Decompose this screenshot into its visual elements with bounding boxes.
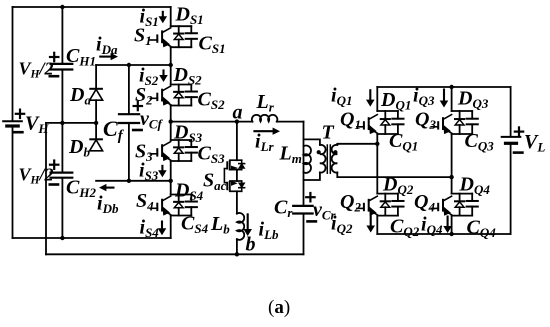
wire: leg1 mid (Q1 to Q2) (376, 134, 378, 194)
wire: leg1 top (rail to Q1) (376, 87, 378, 111)
arrow i_Q4 (443, 216, 452, 234)
wire: output bottom rail (377, 233, 510, 235)
junction: top rail at leg2 (449, 85, 453, 89)
junction: secondary bottom at leg2 midpoint (449, 175, 453, 179)
wire: top rail from left corner to S1 drain (13, 6, 171, 8)
wire: C_f bottom lead (128, 124, 130, 181)
junction: C_f bottom at S3-S4 wire (127, 179, 131, 183)
svg-text:T: T (322, 122, 335, 144)
label - of V_H (14, 131, 22, 134)
inductor L_r (252, 115, 277, 122)
wire: node a line from S leg to L_r (171, 121, 253, 123)
transformer secondary polarity dot (333, 150, 337, 154)
battery V_L (output source) (502, 136, 521, 138)
arrow i_Q1 (366, 89, 375, 106)
label + of C_H1 (50, 56, 58, 58)
wire: primary column vertical (to C_r top) (303, 122, 305, 206)
transistor Q2 (MOSFET) (357, 207, 364, 209)
transistor S3 (MOSFET) (150, 153, 157, 155)
snubber capacitor C_Q2 (397, 194, 399, 201)
wire: bottom return rail V_H- to S4 source (13, 237, 171, 239)
wire: leg2 bottom (Q4 to rail) (451, 216, 453, 234)
wire: V_L branch lower (510, 144, 512, 234)
junction: midpoint M at capacitor column (60, 121, 64, 125)
wire: S_ac to L_b lead (236, 191, 238, 213)
battery V_H (input source) (3, 120, 22, 122)
transistor S2 (MOSFET) (150, 97, 157, 99)
junction: secondary top at leg1 midpoint (375, 142, 379, 146)
junction: C_H2 bottom at return rail (60, 236, 64, 240)
arrow i_Lb (243, 213, 252, 236)
junction: top rail / C_H1 column (60, 5, 64, 9)
wire: S_ac branch upper lead (node a down) (236, 122, 238, 161)
node a junction (235, 119, 239, 123)
switch cell Q4 loop wires (452, 193, 473, 195)
transformer primary polarity dot (317, 150, 321, 154)
snubber capacitor C_Q1 (397, 111, 399, 119)
label + of V_H (16, 113, 24, 115)
junction: bottom rail at leg2 (449, 232, 453, 236)
junction: node a tap at switch string (169, 119, 173, 123)
label + of V_L (515, 131, 523, 133)
transistor S1 (MOSFET) (150, 39, 157, 41)
transformer T secondary winding (332, 145, 338, 173)
wire: leg2 mid (Q3 to Q4) (451, 134, 453, 194)
snubber capacitor C_Q4 (471, 194, 473, 201)
wire: left rail upper segment (top-left corner down to V_H battery) (12, 7, 14, 120)
wire: bottom rail from M to C_r (node b rail) (46, 253, 304, 255)
wire: capacitor column C_H1 top lead (61, 7, 63, 63)
wire: midpoint node M drop to rail b (45, 123, 47, 254)
wire: C_f top lead (128, 65, 130, 114)
label + of v_Cr (306, 196, 314, 198)
switch cell Q3 loop wires (452, 110, 473, 112)
capacitor C_f (flying) (119, 113, 139, 115)
arrow i_Db (99, 184, 115, 191)
snubber capacitor C_S3 (190, 140, 192, 147)
body diode D_Q1 (384, 111, 386, 119)
svg-text:(a): (a) (268, 297, 290, 318)
label - of C_H2 (50, 183, 58, 186)
wire: transformer secondary bottom stub to Q3-Q4 midpoint (337, 173, 451, 178)
arrow i_S1 (159, 11, 168, 23)
wire: output top rail (377, 86, 510, 88)
arrow i_Lr (253, 128, 280, 135)
inductor L_b (237, 213, 244, 240)
body diode D_S2 (178, 85, 180, 92)
body diode D_Q4 (459, 194, 461, 202)
transistor Q1 (MOSFET) (357, 126, 364, 128)
switch cell S1 loop wires (171, 25, 192, 27)
switch cell Q1 loop wires (377, 110, 398, 112)
diode D_a (95, 88, 97, 90)
wire: capacitor column between C_H1 and C_H2 (61, 71, 63, 172)
capacitor C_r (resonant) (293, 205, 312, 207)
wire: left rail lower segment (V_H battery down to bottom corner) (12, 127, 14, 238)
body diode D_S3 (178, 140, 180, 147)
label + of C_H2 (50, 164, 58, 166)
wire: C_r bottom lead (303, 214, 305, 255)
body diode D_Q2 (384, 194, 386, 202)
snubber capacitor C_S4 (190, 195, 192, 202)
wire: S string segment S1 top (170, 7, 172, 26)
junction: C_f top at S1-S2 wire (127, 63, 131, 67)
label - of C_H1 (50, 75, 58, 78)
wire: S1-S2 junction to D_a cathode (96, 64, 171, 66)
junction: S1-S2 at switch string (169, 63, 173, 67)
node b junction (235, 252, 239, 256)
wire: S string segment S2-S3 (node a tap) (170, 106, 172, 141)
wire: capacitor column C_H2 bottom lead (61, 179, 63, 238)
capacitor C_H2 (51, 172, 73, 174)
arrow i_Q3 (440, 89, 449, 108)
arrow i_Da (99, 53, 118, 60)
switch cell Q2 loop wires (377, 193, 398, 195)
junction: node between D_a and D_b (94, 121, 98, 125)
transformer T core (326, 145, 328, 173)
body diode D_S1 (178, 26, 180, 33)
diode D_b (90, 138, 102, 140)
transistor Q4 (MOSFET) (431, 207, 438, 209)
wire: node a line from L_r to primary column (277, 121, 304, 123)
junction: S3-S4 at switch string (169, 179, 173, 183)
body diode D_Q3 (459, 111, 461, 119)
switch cell S4 loop wires (171, 194, 192, 196)
wire: L_b to node b lead (236, 239, 238, 254)
wire: S string segment S1-S2 (170, 47, 172, 84)
wire: S_ac interconnect (236, 170, 238, 181)
snubber capacitor C_S1 (190, 26, 192, 33)
wire: S3-S4 junction to D_b anode (96, 180, 171, 182)
arrow i_S4 (158, 221, 167, 236)
label - of v_Cr (308, 220, 316, 223)
wire: D_a cathode riser (95, 65, 97, 88)
arrow i_Q2 (366, 213, 375, 233)
label - of v_Cf (133, 129, 141, 132)
arrow i_S3 (158, 165, 167, 177)
magnetizing inductor L_m (304, 146, 312, 173)
wire: transformer secondary top stub to Q1-Q2 midpoint (337, 144, 377, 145)
wire: S string segment S4 bottom (170, 216, 172, 239)
label - of V_L (514, 151, 522, 154)
svg-text:b: b (246, 234, 256, 256)
switch cell S3 loop wires (171, 139, 192, 141)
arrow i_S2 (159, 69, 168, 82)
switch cell S2 loop wires (171, 84, 192, 86)
transistor S4 (MOSFET) (150, 207, 157, 209)
transistor Q3 (MOSFET) (431, 126, 438, 128)
wire: S string segment S3-S4 (170, 161, 172, 195)
transformer T primary winding (320, 145, 326, 173)
wire: transformer primary top stub (304, 139, 320, 145)
wire: V_L branch upper (510, 87, 512, 136)
wire: leg2 top (rail to Q3) (451, 87, 453, 111)
wire: transformer primary bottom stub (304, 173, 320, 181)
label + of v_Cf (134, 105, 142, 107)
capacitor C_H1 (51, 63, 73, 65)
snubber capacitor C_Q3 (471, 111, 473, 119)
wire: midpoint node M horizontal (to diode leg) (46, 122, 96, 124)
wire: leg1 bottom (Q2 to rail) (376, 216, 378, 234)
bidirectional switch S_ac (two MOSFETs) (230, 159, 242, 161)
snubber capacitor C_S2 (190, 85, 192, 92)
body diode D_S4 (178, 195, 180, 202)
